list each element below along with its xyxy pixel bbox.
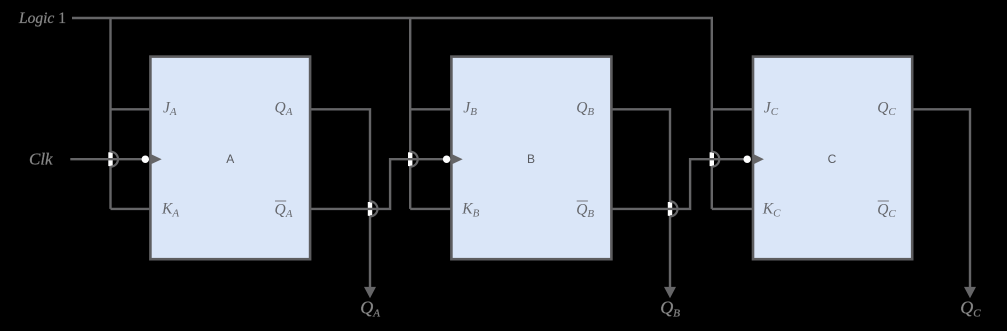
flip-flop A body	[150, 57, 310, 260]
wire K_B stub	[410, 208, 452, 210]
wire Clk input to FF A	[70, 158, 145, 160]
flip-flop B body	[451, 57, 611, 260]
open connection dot at CLK of C	[743, 155, 751, 163]
wire Q_A output run	[310, 109, 370, 289]
wire Q_B output run	[611, 109, 670, 289]
crossover hop: Logic drop A over Clk wire	[108, 152, 118, 167]
wire Logic-1 drop to FF C	[711, 18, 713, 209]
arrowhead Q_C output	[964, 287, 976, 298]
arrowhead Q_A output	[364, 287, 376, 298]
open connection dot at CLK of B	[443, 155, 451, 163]
crossover hop: Q_B drop over Q̄_B wire	[668, 201, 678, 216]
crossover hop: Q_A drop over Q̄_A wire	[368, 201, 378, 216]
svg-text:B: B	[527, 152, 535, 166]
wire J_B stub	[410, 108, 451, 110]
wire K_C stub	[712, 208, 754, 210]
svg-text:C: C	[828, 152, 837, 166]
crossover hop: Logic drop C over Clk-C wire	[710, 152, 720, 167]
wire Q_C output run	[912, 109, 970, 289]
wire K_A stub	[111, 208, 152, 210]
clock edge-trigger triangle C	[753, 154, 764, 165]
crossover hop: Logic drop B over Clk-B wire	[408, 152, 418, 167]
clock edge-trigger triangle A	[150, 154, 161, 165]
pin label Q̄_A with overline	[275, 201, 293, 220]
svg-text:Clk: Clk	[29, 150, 53, 169]
wire Q̄_A to clock of B	[310, 159, 447, 209]
wire Q̄_B to clock of C	[611, 159, 747, 209]
pin label Q̄_B with overline	[576, 201, 594, 220]
wire Logic-1 rail	[72, 17, 713, 19]
svg-text:Logic 1: Logic 1	[18, 10, 66, 27]
svg-text:A: A	[226, 152, 234, 166]
clock edge-trigger triangle B	[451, 154, 462, 165]
open connection dot at CLK of A	[142, 155, 150, 163]
flip-flop C body	[753, 57, 912, 260]
wire Logic-1 drop to FF B	[409, 18, 411, 209]
wire Logic-1 drop to FF A	[109, 18, 111, 209]
arrowhead Q_B output	[664, 287, 676, 298]
wire J_C stub	[712, 108, 753, 110]
pin label Q̄_C with overline	[877, 201, 896, 220]
wire J_A stub	[111, 108, 151, 110]
